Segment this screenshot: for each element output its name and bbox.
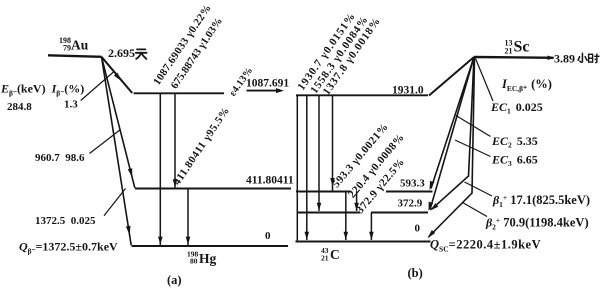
svg-text:1931.0: 1931.0 — [392, 85, 424, 97]
svg-text:Au: Au — [71, 38, 89, 53]
svg-text:Sc: Sc — [514, 39, 530, 56]
svg-text:1372.5 0.025: 1372.5 0.025 — [35, 215, 96, 227]
svg-text:Hg: Hg — [199, 251, 217, 266]
svg-text:80: 80 — [190, 257, 198, 266]
svg-text:372.9: 372.9 — [398, 198, 423, 210]
svg-text:593.3: 593.3 — [400, 178, 425, 190]
svg-text:2.695: 2.695 — [108, 46, 135, 60]
svg-text:21: 21 — [321, 254, 329, 263]
svg-text:(b): (b) — [408, 266, 423, 280]
svg-text:960.7 98.6: 960.7 98.6 — [35, 152, 85, 164]
svg-text:(a): (a) — [167, 273, 182, 287]
svg-text:3.89: 3.89 — [554, 52, 575, 66]
svg-text:284.8: 284.8 — [7, 101, 32, 113]
svg-text:21: 21 — [505, 47, 513, 56]
svg-text:1.3: 1.3 — [64, 99, 78, 111]
svg-text:1087.691: 1087.691 — [246, 78, 289, 90]
svg-text:C: C — [330, 247, 340, 262]
svg-text:EC10.025: EC10.025 — [490, 100, 543, 116]
svg-text:79: 79 — [63, 44, 71, 53]
svg-text:0: 0 — [265, 230, 271, 242]
svg-text:411.80411: 411.80411 — [246, 175, 294, 187]
svg-text:0: 0 — [415, 223, 421, 235]
